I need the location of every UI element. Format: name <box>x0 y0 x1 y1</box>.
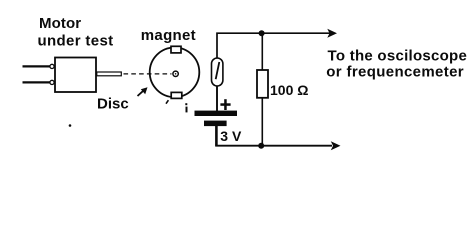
reed switch S1 <box>212 58 223 86</box>
wire: resistor to bottom rail <box>261 98 263 146</box>
svg-text:Disc: Disc <box>97 96 129 113</box>
arrowhead top <box>327 29 337 38</box>
disc hub <box>173 71 178 76</box>
svg-text:3 V: 3 V <box>220 128 242 144</box>
disc <box>150 48 200 98</box>
label: Motor under test <box>38 15 114 49</box>
label: To the osciloscope or frequencemeter <box>326 48 467 81</box>
stray dot <box>69 124 72 127</box>
Disc arrow <box>138 87 148 96</box>
motor M1 body <box>55 58 96 93</box>
shaft axis dashed line <box>124 73 172 75</box>
junction node bottom <box>258 143 264 149</box>
motor shaft <box>97 72 122 76</box>
svg-text:or frequencemeter: or frequencemeter <box>326 64 464 81</box>
wire: bottom rail <box>215 145 332 147</box>
battery B1 positive plate <box>195 111 238 116</box>
battery plus sign <box>220 99 230 110</box>
arrowhead bottom <box>331 141 341 150</box>
stray i mark <box>185 103 187 112</box>
wire: top rail with left drop <box>217 33 331 58</box>
wire: top rail to resistor <box>261 33 263 70</box>
wire: reed switch to battery <box>216 86 218 111</box>
junction node top <box>259 30 265 36</box>
wire: motor lead top <box>23 65 51 67</box>
wire: battery to bottom rail <box>215 126 218 146</box>
svg-text:To the osciloscope: To the osciloscope <box>328 48 468 65</box>
magnet top <box>171 46 181 53</box>
motor terminal top <box>50 64 54 68</box>
svg-text:100 Ω: 100 Ω <box>270 82 308 98</box>
battery B1 negative plate <box>204 121 227 127</box>
svg-text:magnet: magnet <box>141 27 196 44</box>
magnet bottom <box>171 92 182 98</box>
svg-text:under test: under test <box>38 32 114 49</box>
motor terminal bottom <box>50 80 54 84</box>
resistor R1 <box>257 70 268 98</box>
stray tick near disc rim <box>166 100 168 104</box>
svg-text:Motor: Motor <box>39 15 81 32</box>
wire: motor lead bottom <box>23 81 51 83</box>
